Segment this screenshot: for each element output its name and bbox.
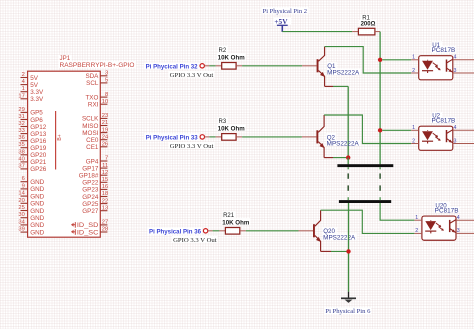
svg-text:10K Ohm: 10K Ohm: [218, 54, 246, 61]
svg-text:26: 26: [102, 142, 108, 148]
JP1 right pin 28: [77, 227, 108, 237]
svg-text:RXI: RXI: [88, 102, 99, 109]
wire collector to opto cathode: [325, 47, 412, 73]
junction dot Q20 emitter: [346, 249, 350, 253]
JP1 left pin 14 GND: [18, 191, 44, 201]
svg-text:8: 8: [105, 92, 108, 98]
junction dot +5V/U2: [378, 128, 382, 132]
svg-text:29: 29: [18, 107, 24, 113]
svg-text:TXO: TXO: [85, 94, 98, 101]
JP1 left pin 25 GND: [18, 205, 44, 215]
JP1 right pin 18: [82, 191, 108, 201]
JP1 right pin 26: [86, 142, 108, 152]
JP1 left pin 2 5V: [21, 72, 39, 82]
svg-text:5: 5: [105, 78, 108, 84]
svg-text:R21: R21: [223, 213, 235, 219]
clock mark: [71, 229, 75, 235]
svg-text:7: 7: [105, 156, 108, 162]
svg-text:GND: GND: [30, 222, 44, 229]
svg-text:2: 2: [412, 68, 415, 74]
svg-text:9: 9: [22, 183, 25, 189]
svg-text:Pi Physical Pin 36: Pi Physical Pin 36: [149, 228, 201, 235]
JP1 right pin 8: [85, 92, 108, 102]
svg-text:13: 13: [102, 205, 108, 211]
JP1 right pin 16: [82, 184, 108, 194]
svg-text:SCL: SCL: [86, 80, 99, 87]
svg-text:17: 17: [18, 93, 24, 99]
JP1 right pin 10: [88, 99, 108, 109]
JP1 right pin 15: [82, 177, 108, 187]
wire to base: [242, 65, 302, 67]
emitter rail through break to ground: [348, 203, 350, 292]
svg-text:GND: GND: [30, 208, 44, 215]
svg-text:32: 32: [18, 121, 24, 127]
svg-text:28: 28: [102, 227, 108, 233]
JP1 right pin 23: [82, 113, 108, 123]
svg-text:Pi Physical Pin 2: Pi Physical Pin 2: [263, 8, 307, 15]
svg-text:ID_SC: ID_SC: [77, 229, 99, 236]
svg-text:14: 14: [18, 191, 25, 197]
svg-text:GP23: GP23: [82, 187, 99, 194]
svg-text:2: 2: [412, 138, 415, 144]
svg-text:27: 27: [102, 220, 108, 226]
connector JP1 RASPBERRYPI-B+-GPIO: [28, 55, 135, 237]
svg-text:SDA: SDA: [85, 73, 99, 80]
svg-text:B+: B+: [57, 134, 63, 140]
svg-text:1: 1: [415, 215, 418, 221]
svg-text:GPIO 3.3 V Out: GPIO 3.3 V Out: [170, 72, 214, 79]
svg-text:25: 25: [18, 205, 24, 211]
svg-text:40: 40: [18, 156, 24, 162]
svg-text:18: 18: [102, 191, 108, 197]
svg-text:33: 33: [18, 128, 24, 134]
wire +5V to R1: [282, 31, 352, 33]
JP1 left pin 31 GP6: [18, 114, 43, 124]
optocoupler U1 PC817B: [411, 42, 474, 80]
+5V vertical rail: [379, 32, 381, 165]
resistor R21 10K Ohm: [208, 213, 250, 234]
supply +5V symbol: [274, 17, 288, 32]
JP1 right pin 24: [86, 134, 109, 144]
transistor Q2 MPS2222A: [302, 115, 360, 158]
wire to base: [246, 230, 299, 232]
svg-text:GP27: GP27: [82, 208, 99, 215]
net label Pi Physical Pin 6: [325, 308, 370, 315]
svg-text:GND: GND: [30, 215, 44, 222]
svg-text:CE1: CE1: [86, 144, 99, 151]
svg-text:MPS2222A: MPS2222A: [323, 234, 356, 241]
clock mark: [71, 222, 75, 228]
JP1 right pin 13: [82, 205, 108, 215]
wire Q2 emitter to junction: [324, 157, 348, 159]
svg-text:2: 2: [22, 72, 25, 78]
label backgrounds: [59, 7, 460, 314]
wire to base: [242, 136, 302, 138]
wire Q20 emitter to junction: [321, 250, 349, 252]
svg-text:GP21: GP21: [30, 159, 47, 166]
svg-text:23: 23: [102, 113, 108, 119]
svg-text:31: 31: [18, 114, 24, 120]
svg-text:1: 1: [22, 86, 25, 92]
svg-text:ID_SD: ID_SD: [77, 222, 99, 229]
svg-text:MPS2222A: MPS2222A: [327, 140, 360, 147]
net label Pi Physical Pin 2: [263, 8, 307, 15]
JP1 left pin 37 GP26: [18, 163, 46, 173]
JP1 right pin 22: [82, 198, 108, 208]
svg-text:35: 35: [18, 142, 24, 148]
svg-text:4: 4: [454, 55, 457, 61]
JP1 left pin 36 GP16: [18, 135, 46, 145]
junction dot +5V/U1: [378, 58, 382, 62]
svg-text:6: 6: [22, 176, 25, 182]
svg-text:11: 11: [102, 163, 108, 169]
svg-text:GP6: GP6: [30, 117, 43, 124]
svg-text:Pi Phycical Pin 32: Pi Phycical Pin 32: [146, 63, 198, 70]
wire rail to U1 anode: [382, 59, 411, 61]
svg-text:3: 3: [105, 71, 108, 77]
wire rail to U2 anode: [382, 129, 411, 131]
svg-text:GND: GND: [30, 229, 44, 236]
svg-text:GP12: GP12: [30, 124, 47, 131]
svg-text:2: 2: [415, 228, 418, 234]
JP1 left pin 38 GP20: [18, 149, 46, 159]
JP1 left pin 1 3.3V: [21, 86, 44, 96]
JP1 left pin 40 GP21: [18, 156, 46, 166]
resistor R3 10K Ohm: [205, 119, 246, 140]
svg-text:GP24: GP24: [82, 194, 99, 201]
wire emitter rail to break bar: [347, 158, 349, 165]
svg-text:MISO: MISO: [82, 123, 98, 130]
transistor Q1 MPS2222A: [302, 47, 360, 87]
JP1 left pin 39 GND: [18, 227, 44, 237]
resistor R1 200 Ohm: [352, 16, 380, 35]
JP1 right pin 19: [82, 127, 108, 137]
svg-text:GP16: GP16: [30, 138, 47, 145]
svg-text:3.3V: 3.3V: [30, 96, 44, 103]
JP1 left pin 29 GP5: [18, 107, 43, 117]
svg-text:21: 21: [102, 120, 108, 126]
wire collector to opto cathode: [321, 210, 415, 233]
svg-text:GP4: GP4: [86, 158, 99, 165]
svg-text:200Ω: 200Ω: [361, 21, 376, 27]
svg-text:GND: GND: [30, 186, 44, 193]
JP1 right pin 12: [79, 170, 108, 180]
svg-text:3.3V: 3.3V: [30, 89, 44, 96]
net label Pi Phycical Pin 32 (GPIO): [146, 63, 214, 78]
wire Q1 emitter to rail: [325, 86, 349, 157]
svg-text:GND: GND: [30, 201, 44, 208]
svg-text:3: 3: [454, 68, 457, 74]
optocoupler U20 PC817B: [414, 202, 474, 240]
svg-text:10K Ohm: 10K Ohm: [222, 219, 250, 226]
JP1 left pin 20 GND: [18, 198, 44, 208]
svg-text:GP22: GP22: [82, 180, 99, 187]
svg-text:GP18#: GP18#: [79, 173, 99, 180]
svg-text:GND: GND: [30, 179, 44, 186]
svg-text:PC817B: PC817B: [432, 47, 456, 54]
svg-text:GP17: GP17: [82, 165, 99, 172]
JP1 left pin 30 GND: [18, 212, 44, 222]
svg-text:GP25: GP25: [82, 201, 99, 208]
dashed continuation wire: [347, 167, 349, 200]
svg-text:1: 1: [412, 125, 415, 131]
svg-text:RASPBERRYPI-B+-GPIO: RASPBERRYPI-B+-GPIO: [60, 62, 135, 69]
svg-text:16: 16: [102, 184, 108, 190]
JP1 left pin 17 3.3V: [18, 93, 44, 103]
svg-text:34: 34: [18, 219, 25, 225]
svg-text:MPS2222A: MPS2222A: [327, 69, 360, 76]
+5V rail through break to U20: [380, 203, 414, 220]
svg-text:15: 15: [102, 177, 108, 183]
pin circle Pi Physical Pin 36: [203, 229, 207, 233]
svg-text:GND: GND: [30, 193, 44, 200]
net label Pi Physical Pin 33 (GPIO): [146, 135, 214, 150]
wire collector to opto cathode: [324, 115, 411, 144]
net label Pi Physical Pin 36 (GPIO): [149, 228, 217, 243]
svg-text:10: 10: [102, 99, 108, 105]
svg-text:R3: R3: [219, 119, 227, 125]
svg-text:36: 36: [18, 135, 24, 141]
JP1 right pin 27: [77, 220, 108, 230]
JP1 right pin 11: [82, 163, 108, 173]
svg-text:5V: 5V: [30, 75, 39, 82]
JP1 B+ polarity bar: [56, 111, 63, 170]
svg-text:5V: 5V: [30, 82, 39, 89]
svg-text:37: 37: [18, 163, 24, 169]
svg-text:10K Ohm: 10K Ohm: [218, 125, 246, 132]
svg-text:3: 3: [454, 138, 457, 144]
JP1 right pin 3: [85, 71, 108, 81]
svg-text:24: 24: [102, 134, 109, 140]
JP1 left pin 33 GP13: [18, 128, 46, 138]
svg-text:4: 4: [457, 215, 460, 221]
dashed continuation wire: [379, 167, 381, 200]
svg-text:12: 12: [102, 170, 108, 176]
JP1 left pin 35 GP19: [18, 142, 46, 152]
continuation break bar top: [337, 164, 393, 167]
svg-text:4: 4: [454, 125, 457, 131]
svg-text:39: 39: [18, 227, 24, 233]
svg-text:30: 30: [18, 212, 24, 218]
pin circle Pi Phycical Pin 32: [200, 64, 204, 68]
svg-text:PC817B: PC817B: [432, 118, 456, 125]
JP1 left pin 6 GND: [21, 176, 45, 186]
svg-text:22: 22: [102, 198, 108, 204]
optocoupler U2 PC817B: [411, 113, 474, 151]
JP1 right pin 7: [86, 156, 108, 166]
svg-text:GP26: GP26: [30, 166, 47, 173]
pin circle Pi Physical Pin 33: [200, 135, 204, 139]
JP1 left pin 32 GP12: [18, 121, 46, 131]
svg-text:GPIO 3.3 V Out: GPIO 3.3 V Out: [173, 237, 217, 244]
svg-text:GP19: GP19: [30, 145, 47, 152]
svg-text:GP13: GP13: [30, 131, 47, 138]
JP1 left pin 4 5V: [21, 79, 39, 89]
svg-text:CE0: CE0: [86, 137, 99, 144]
svg-text:SCLK: SCLK: [82, 116, 99, 123]
svg-text:20: 20: [18, 198, 24, 204]
ground symbol: [341, 292, 356, 303]
svg-text:GP20: GP20: [30, 152, 47, 159]
JP1 left pin 9 GND: [21, 183, 45, 193]
transistor Q20 MPS2222A: [299, 210, 357, 251]
svg-text:3: 3: [457, 228, 460, 234]
junction dot Q2 emitter: [346, 155, 350, 159]
JP1 right pin 5: [86, 78, 108, 88]
resistor R2 10K Ohm: [204, 48, 245, 69]
svg-text:19: 19: [102, 127, 108, 133]
JP1 left pin 34 GND: [18, 219, 44, 229]
svg-text:R2: R2: [219, 48, 227, 54]
svg-text:Pi Physical Pin 6: Pi Physical Pin 6: [325, 308, 370, 315]
svg-text:Pi Physical Pin 33: Pi Physical Pin 33: [146, 135, 198, 142]
svg-text:GPIO 3.3 V Out: GPIO 3.3 V Out: [170, 143, 214, 150]
continuation break bar bottom: [339, 200, 391, 203]
JP1 right pin 21: [82, 120, 108, 130]
svg-text:38: 38: [18, 149, 24, 155]
svg-text:PC817B: PC817B: [435, 207, 459, 214]
svg-text:MOSI: MOSI: [82, 130, 98, 137]
svg-text:1: 1: [412, 55, 415, 61]
svg-text:GP5: GP5: [30, 110, 43, 117]
